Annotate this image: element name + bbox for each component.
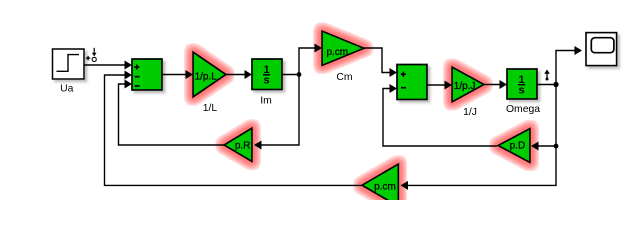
sum block sum1 — [132, 59, 162, 90]
wire gain 1/p.L to integrator Im — [226, 74, 246, 76]
wire sum1 to gain 1/p.L — [162, 74, 187, 76]
gain Cm — [322, 31, 364, 66]
svg-text:p.D: p.D — [510, 140, 526, 151]
scope block — [586, 33, 617, 66]
integrator Omega — [507, 69, 537, 99]
wire node B up to scope — [556, 51, 576, 85]
gain 1/p.J — [452, 67, 484, 102]
wire node C to gain p.D input — [538, 145, 556, 147]
node B junction dot — [553, 82, 558, 87]
integrator Im — [252, 59, 282, 90]
svg-text:s: s — [519, 84, 525, 96]
wire sum2 to gain 1/p.J — [427, 84, 446, 86]
wire Im to node A — [282, 74, 299, 76]
svg-text:p.R: p.R — [235, 140, 251, 151]
gain p.R — [224, 128, 252, 162]
wire node B down to bottom feedback — [407, 85, 556, 186]
gain p.cm feedback — [362, 164, 398, 207]
svg-text:s: s — [264, 74, 270, 86]
wire gain p.R output to sum1 input3 — [119, 84, 225, 145]
gain p.D — [498, 129, 530, 163]
svg-text:1/L: 1/L — [203, 103, 218, 114]
svg-text:Cm: Cm — [336, 72, 352, 83]
step source Ua — [53, 49, 85, 79]
svg-text:Omega: Omega — [506, 104, 540, 115]
svg-text:1/p.L: 1/p.L — [195, 72, 218, 83]
wire gain Cm to sum2 input1 — [364, 48, 391, 73]
wire node A down to gain p.R input — [260, 75, 299, 146]
svg-text:p.cm: p.cm — [374, 181, 396, 192]
sum block sum2 — [397, 65, 427, 100]
node C junction dot — [554, 144, 559, 149]
wire gain 1/p.J to integrator Omega — [484, 84, 501, 86]
wire step Ua to sum1 input1 — [84, 64, 126, 66]
svg-text:Im: Im — [260, 95, 272, 106]
svg-text:p.cm: p.cm — [326, 47, 348, 58]
gain 1/p.L — [193, 52, 226, 97]
svg-text:Ua: Ua — [60, 84, 74, 95]
linearization input point marker — [86, 48, 97, 62]
wire gain p.D output to sum2 input2 — [383, 89, 497, 147]
wire node A up to gain Cm — [299, 48, 316, 75]
wire Omega to node B — [537, 84, 556, 86]
node A junction dot — [297, 72, 302, 77]
wire gain p.cm output to sum1 input2 — [105, 75, 363, 185]
linearization output point marker — [544, 70, 550, 81]
svg-text:1/p.J: 1/p.J — [454, 81, 476, 92]
svg-text:1/J: 1/J — [463, 107, 477, 118]
